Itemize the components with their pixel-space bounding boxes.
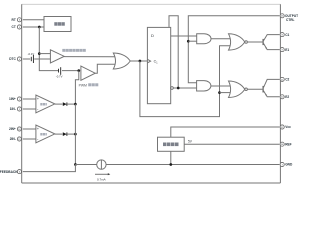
- pin RT: [17, 18, 21, 22]
- svg-text:2IN-: 2IN-: [10, 137, 16, 141]
- battery offset -0.7V in sawtooth to PWM line: [58, 69, 60, 73]
- wire sawtooth branch to dead-time comparator + input: [39, 53, 50, 55]
- wire reference to REF pin: [184, 143, 279, 145]
- svg-text:E1: E1: [285, 48, 289, 52]
- node reference gnd junction: [169, 163, 172, 166]
- node NOR2 branch: [218, 91, 221, 94]
- NOR gate 2: [229, 81, 245, 98]
- pin 2IN-: [17, 137, 21, 141]
- svg-text:CTRL: CTRL: [286, 18, 295, 22]
- node diode1 junction: [74, 103, 77, 106]
- pin E1: [280, 48, 284, 52]
- transistor Q2: [262, 86, 264, 93]
- pin C1: [280, 33, 284, 37]
- svg-text:-0.7V: -0.7V: [56, 75, 63, 79]
- node comparator output junction: [139, 60, 142, 63]
- AND gate 1: [197, 34, 211, 44]
- wire OUTPUT CTRL to AND gates: [188, 16, 279, 83]
- wire sawtooth vertical CT down to PWM comparator: [39, 27, 58, 71]
- node CT sawtooth junction: [38, 26, 41, 29]
- node feedback bus to gnd line: [74, 163, 77, 166]
- wire gnd/current line: [75, 164, 279, 166]
- wire FEEDBACK pin: [23, 165, 76, 172]
- op-amp PWM comparator: [81, 66, 95, 80]
- svg-text:1IN+: 1IN+: [9, 97, 16, 101]
- pin GND: [280, 162, 284, 166]
- node sawtooth to dead-time comparator: [38, 52, 41, 55]
- wire 1IN-: [23, 108, 36, 110]
- pin 1IN+: [17, 97, 21, 101]
- wire NOR1 output to Q1 base: [247, 41, 262, 43]
- pin REF: [280, 142, 284, 146]
- wire Qbar output to AND2: [173, 87, 196, 89]
- svg-text:E2: E2: [285, 95, 289, 99]
- wire 2IN+: [23, 128, 36, 130]
- wire reference to gnd: [170, 151, 172, 164]
- svg-text:Vcc: Vcc: [285, 125, 291, 129]
- diode D2: [63, 132, 67, 136]
- node Qbar to D bridge: [177, 87, 180, 90]
- wire AND2 output to NOR2: [211, 85, 232, 87]
- pin CT: [17, 25, 21, 29]
- label 死区控制比较器: [62, 49, 85, 52]
- pin FEEDBACK: [17, 170, 21, 174]
- svg-text:PWM: PWM: [79, 83, 87, 87]
- reference regulator box 基准电源: [158, 137, 185, 151]
- pin 1IN-: [17, 107, 21, 111]
- wire AND1 output to NOR1: [211, 38, 232, 40]
- svg-text:1IN-: 1IN-: [10, 107, 16, 111]
- wire amp2 output: [55, 133, 63, 135]
- error amplifier 2: [36, 125, 55, 143]
- battery offset -0.1V in DTC line: [30, 57, 32, 61]
- wire amp1 output: [55, 103, 63, 105]
- svg-text:RT: RT: [12, 18, 16, 22]
- transistor Q1: [262, 39, 264, 45]
- svg-text:-0.1V: -0.1V: [28, 52, 35, 56]
- wire reference to Vcc pin: [171, 127, 280, 137]
- svg-text:D: D: [151, 33, 154, 38]
- wire dead-time comparator output to OR gate: [64, 56, 115, 58]
- NOR gate 1: [229, 34, 245, 50]
- wire comparator output down and across to NOR gates: [140, 46, 232, 117]
- diode D1: [63, 102, 67, 106]
- wire NOR2 output to Q2 base: [247, 88, 262, 90]
- wire DTC pin to dead-time comparator: [23, 58, 30, 60]
- flip-flop Qbar bubble: [171, 87, 174, 90]
- wire 2IN-: [23, 138, 36, 140]
- svg-text:GND: GND: [285, 163, 293, 167]
- node diode2 junction: [74, 133, 77, 136]
- node PWM comparator input junction: [77, 69, 80, 72]
- error amplifier 1: [36, 95, 55, 113]
- pin C2: [280, 77, 284, 81]
- pin E2: [280, 95, 284, 99]
- svg-text:CT: CT: [12, 25, 16, 29]
- wire feedback bus to PWM comparator input: [75, 71, 78, 105]
- pin DTC: [17, 57, 21, 61]
- node output ctrl to AND1: [187, 40, 190, 43]
- current source 0.7mA: [97, 160, 106, 169]
- wire OR output to flip-flop clock: [130, 60, 147, 62]
- wire RT pin to oscillator: [23, 19, 44, 21]
- wire PWM comparator output to OR gate: [95, 64, 115, 73]
- svg-text:C2: C2: [285, 78, 289, 82]
- wire Q output to AND1: [171, 35, 197, 37]
- IC outer border box: [22, 3, 281, 5]
- pin 2IN+: [17, 127, 21, 131]
- op-amp dead-time comparator: [50, 50, 64, 63]
- AND gate 2: [197, 81, 211, 91]
- svg-text:C1: C1: [285, 33, 289, 37]
- pin OUTPUT CTRL: [280, 14, 284, 18]
- svg-text:DTC: DTC: [9, 57, 16, 61]
- oscillator box 振荡器: [44, 17, 71, 32]
- wire 1IN+: [23, 98, 36, 100]
- flip-flop U1 box: [147, 27, 170, 103]
- OR gate comparator combiner: [113, 53, 130, 69]
- svg-text:2IN+: 2IN+: [9, 127, 16, 131]
- pin Vcc: [280, 125, 284, 129]
- wire feedback bus: [74, 104, 76, 164]
- wire CT pin to oscillator: [23, 26, 44, 28]
- wire D feedback bridge from flip-flop top to Qbar line: [169, 16, 178, 88]
- svg-text:REF: REF: [285, 142, 291, 146]
- flip-flop clock input symbol: [147, 59, 150, 63]
- wire branch to NOR2 lower input: [220, 92, 232, 94]
- svg-text:FEEDBACK: FEEDBACK: [0, 170, 18, 174]
- svg-text:0.7mA: 0.7mA: [97, 177, 106, 181]
